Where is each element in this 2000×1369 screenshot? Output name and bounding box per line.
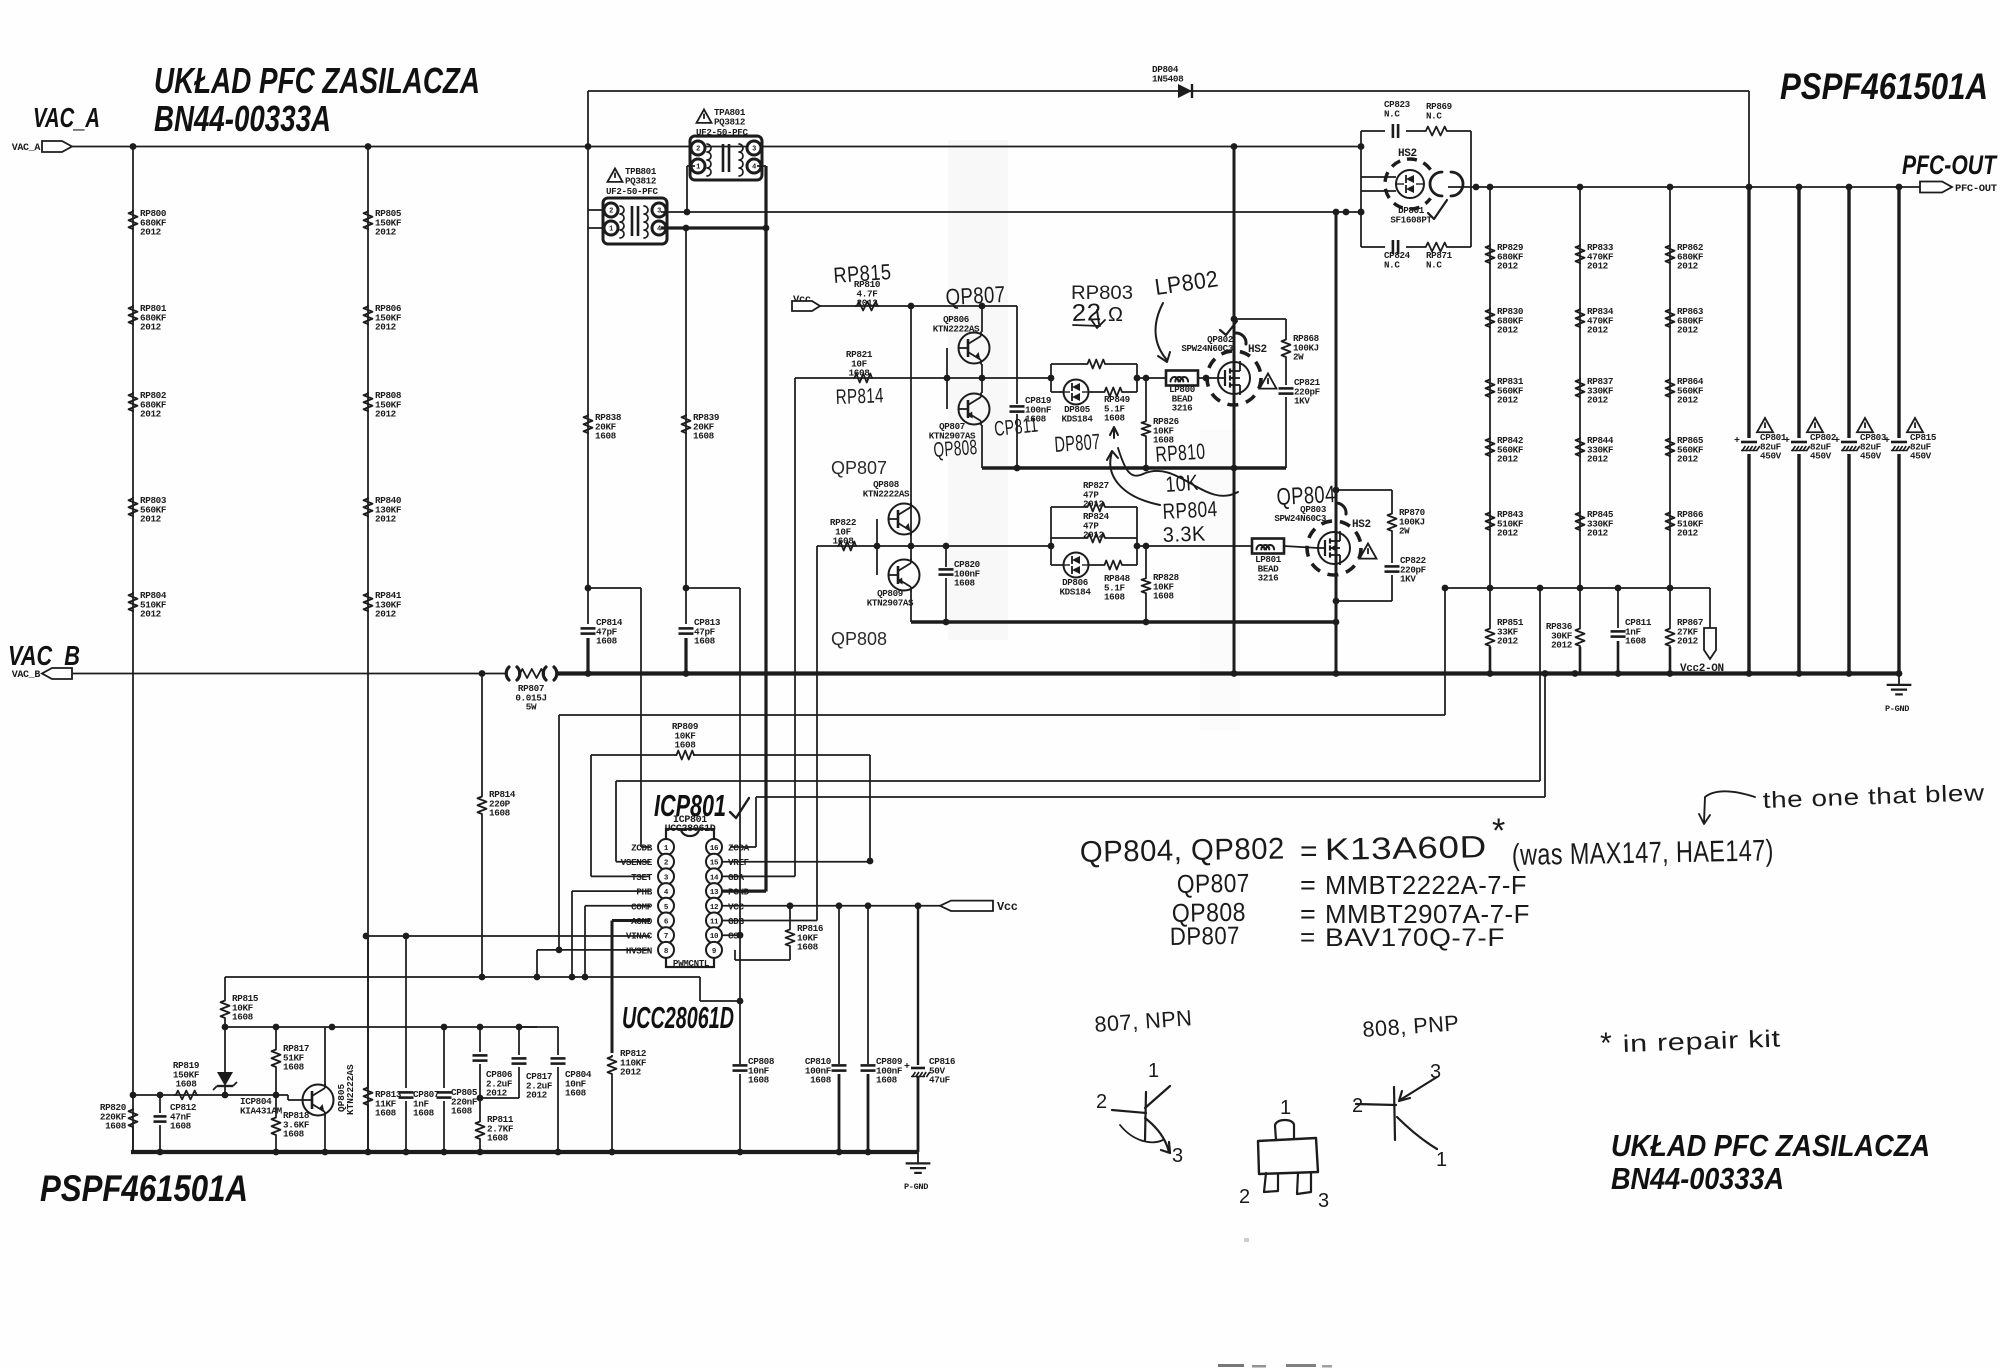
svg-text:1608: 1608 — [797, 942, 819, 953]
node VAC_A junctions — [130, 143, 137, 150]
pin 6 AGND — [658, 913, 674, 929]
svg-text:2012: 2012 — [140, 322, 162, 333]
svg-text:10: 10 — [710, 933, 719, 941]
wire output cap column CP801 — [1747, 187, 1750, 674]
handwritten DP807 arrow — [1110, 427, 1118, 438]
resistor RP863 — [1666, 308, 1675, 328]
handwritten RP803 arrow — [1090, 310, 1105, 328]
svg-text:2012: 2012 — [857, 298, 879, 309]
svg-text:2012: 2012 — [1497, 636, 1519, 647]
svg-text:Vcc: Vcc — [997, 900, 1018, 914]
mosfet QP803 — [1335, 212, 1338, 674]
resistor RP869 — [1424, 127, 1448, 136]
capacitor CP815 — [1890, 438, 1908, 454]
svg-text:1608: 1608 — [595, 431, 617, 442]
node bottom rail junctions — [157, 1149, 164, 1156]
resistor RP871 — [1424, 243, 1448, 252]
svg-text:7: 7 — [664, 933, 668, 941]
wire HS2 block frame — [1361, 130, 1385, 132]
capacitor CP807 — [405, 936, 407, 1088]
wire TPB801 left pin stubs — [588, 209, 604, 211]
svg-text:RP804: RP804 — [1162, 496, 1218, 524]
node H4 junctions — [684, 209, 691, 216]
connector PFC-OUT — [1920, 182, 1952, 193]
svg-text:1608: 1608 — [954, 578, 975, 589]
resistor RP831 — [1486, 378, 1495, 398]
capacitor CP820 — [943, 543, 950, 550]
svg-text:1: 1 — [1436, 1149, 1448, 1171]
svg-text:Ω: Ω — [1108, 304, 1123, 326]
transformer TPB801 — [603, 198, 667, 244]
resistor RP821 — [853, 374, 873, 383]
svg-text:15: 15 — [710, 860, 719, 868]
svg-text:KTN2222AS: KTN2222AS — [863, 488, 910, 499]
wire QP806/QP807 base bus — [946, 348, 948, 409]
svg-text:2012: 2012 — [1587, 395, 1609, 406]
ground P-GND right — [1898, 674, 1900, 685]
svg-text:BN44-00333A: BN44-00333A — [154, 98, 331, 139]
svg-text:KTN2222AS: KTN2222AS — [933, 323, 980, 334]
svg-text:N.C: N.C — [1426, 110, 1442, 121]
svg-text:PWMCNTL: PWMCNTL — [673, 958, 710, 969]
resistor RP805 — [364, 210, 373, 230]
svg-text:1608: 1608 — [283, 1062, 305, 1073]
svg-text:=: = — [1300, 922, 1316, 952]
wire y=1095 node line — [133, 1094, 288, 1096]
resistor RP819 — [174, 1091, 198, 1100]
wire pin1 feed x=641 — [640, 588, 642, 847]
svg-text:1608: 1608 — [1625, 636, 1647, 647]
resistor RP838 — [584, 414, 593, 434]
resistor RP803 printed — [1086, 360, 1106, 369]
wire VAC_B rail thin segment — [72, 673, 506, 675]
svg-text:3216: 3216 — [1258, 573, 1279, 584]
wire y=977 node line — [225, 976, 700, 978]
handwritten LP802 arrow — [1156, 303, 1170, 362]
svg-text:1608: 1608 — [176, 1079, 198, 1090]
wire ZCDA net y=797 — [730, 846, 756, 848]
svg-text:2012: 2012 — [140, 409, 162, 420]
wire PGND thick vertical x=766 — [764, 228, 767, 892]
node PFC-OUT junctions — [1473, 184, 1480, 191]
svg-text:PSPF461501A: PSPF461501A — [1780, 66, 1988, 107]
pin 5 COMP — [658, 898, 674, 914]
inductor LP801 bead — [1252, 539, 1284, 554]
IC ICP801 body — [666, 829, 714, 967]
pin 12 VCC — [706, 898, 722, 914]
wire PFC-OUT rail — [1455, 186, 1952, 188]
svg-text:PFC-OUT: PFC-OUT — [1955, 183, 1997, 195]
svg-text:2012: 2012 — [375, 609, 397, 620]
svg-text:2012: 2012 — [1677, 325, 1699, 336]
wire GDA drive line y=378 — [795, 377, 1051, 379]
resistor RP809 — [675, 751, 695, 760]
svg-text:1: 1 — [1280, 1097, 1292, 1119]
svg-text:1608: 1608 — [1153, 591, 1174, 602]
svg-text:4: 4 — [752, 164, 756, 172]
svg-text:4: 4 — [657, 226, 661, 234]
heatsink HS2 dashed circle upper — [1207, 351, 1261, 405]
svg-text:1608: 1608 — [413, 1108, 435, 1119]
svg-text:47uF: 47uF — [929, 1075, 951, 1086]
wire bottom rail — [131, 1150, 918, 1154]
scan speckles bottom edge — [1218, 1364, 1244, 1367]
svg-text:2012: 2012 — [1677, 528, 1699, 539]
capacitor CP813 — [685, 588, 687, 624]
svg-text:VCC: VCC — [728, 901, 744, 912]
node base/emitter junctions upper — [944, 375, 951, 382]
capacitor CP809 — [867, 906, 869, 1064]
diode DP805 — [1064, 380, 1089, 405]
wire CS pin10 to CP808 column — [722, 934, 740, 936]
wire TPA801 pin1 to H4 — [687, 165, 695, 167]
svg-text:450V: 450V — [1910, 451, 1932, 462]
pin 10 CS — [706, 927, 722, 943]
svg-text:2W: 2W — [1399, 526, 1410, 537]
node network nodes upper — [1048, 375, 1055, 382]
handwritten checkmark QP802 — [1220, 321, 1237, 335]
resistor RP826 — [1143, 375, 1150, 382]
svg-text:450V: 450V — [1760, 451, 1782, 462]
svg-text:2012: 2012 — [1677, 395, 1699, 406]
svg-text:2012: 2012 — [1497, 325, 1519, 336]
wire COMP pin5 down — [585, 905, 650, 907]
wire RP814 column — [481, 674, 483, 796]
svg-text:2012: 2012 — [526, 1090, 548, 1101]
resistor RP802 — [129, 392, 138, 412]
resistor RP827 — [1086, 503, 1106, 512]
svg-text:QP807: QP807 — [945, 281, 1006, 310]
svg-text:2: 2 — [696, 146, 700, 154]
svg-text:2: 2 — [609, 208, 613, 216]
svg-text:2012: 2012 — [1677, 636, 1699, 647]
resistor RP868 — [1234, 318, 1286, 320]
pin 14 GDA — [706, 868, 722, 884]
wire top rail — [588, 90, 1749, 92]
capacitor CP822 — [1391, 532, 1393, 563]
svg-text:KTN2222AS: KTN2222AS — [345, 1064, 356, 1115]
svg-text:450V: 450V — [1810, 451, 1832, 462]
node Vcc line junctions — [908, 303, 915, 310]
svg-text:3: 3 — [1318, 1190, 1330, 1212]
resistor RP867 — [1669, 588, 1671, 627]
wire y=588 to IC nest left — [588, 587, 641, 589]
svg-text:12: 12 — [710, 904, 719, 912]
node base/emitter junctions lower — [874, 543, 881, 550]
warning triangle QP802 — [1260, 374, 1277, 389]
svg-text:VAC_A: VAC_A — [33, 102, 100, 133]
svg-text:1608: 1608 — [565, 1088, 587, 1099]
wire left ladder column 2 x=368 — [367, 147, 369, 1153]
resistor RP866 — [1666, 511, 1675, 531]
resistor RP833 — [1576, 244, 1585, 264]
capacitor CP811 right — [1617, 588, 1619, 628]
capacitor CP814 — [587, 588, 589, 624]
wire PGND pin13 thick — [722, 889, 766, 892]
svg-text:1608: 1608 — [232, 1012, 254, 1023]
resistor RP803 — [129, 497, 138, 517]
svg-text:1608: 1608 — [105, 1121, 127, 1132]
diode DP801 dual — [1361, 176, 1396, 178]
resistor RP849 — [1103, 388, 1123, 397]
resistor RP836 — [1579, 588, 1581, 627]
svg-text:1: 1 — [609, 226, 613, 234]
pin 16 ZCDA — [706, 839, 722, 855]
wire nested net B y=781 — [1539, 588, 1541, 781]
svg-text:3216: 3216 — [1172, 403, 1193, 414]
svg-text:2012: 2012 — [1497, 528, 1519, 539]
svg-text:1608: 1608 — [283, 1129, 305, 1140]
svg-text:N.C: N.C — [1384, 259, 1400, 270]
svg-text:2012: 2012 — [1497, 395, 1519, 406]
handwritten SOT23 sketch — [1258, 1138, 1318, 1174]
svg-text:2: 2 — [1096, 1091, 1108, 1113]
capacitor CP808 — [739, 588, 741, 1064]
resistor RP804 — [129, 592, 138, 612]
svg-text:RP815: RP815 — [833, 259, 893, 288]
svg-text:2012: 2012 — [1083, 499, 1104, 510]
svg-text:1608: 1608 — [1104, 413, 1125, 424]
svg-text:PFC-OUT: PFC-OUT — [1902, 150, 1998, 180]
wire VAC_B / P-GND rail thick — [558, 671, 1899, 675]
svg-text:1608: 1608 — [596, 636, 618, 647]
connector Vcc IC — [940, 901, 993, 911]
svg-text:PQ3812: PQ3812 — [714, 116, 745, 127]
svg-text:PQ3812: PQ3812 — [625, 175, 656, 186]
svg-text:1608: 1608 — [876, 1075, 898, 1086]
resistor RP820 — [129, 1108, 138, 1128]
svg-text:QP807: QP807 — [1177, 868, 1251, 899]
connector VAC_A — [42, 141, 72, 152]
svg-text:1608: 1608 — [748, 1075, 770, 1086]
svg-text:2: 2 — [1352, 1095, 1364, 1117]
svg-text:ZCDA: ZCDA — [728, 843, 750, 854]
svg-text:KDS184: KDS184 — [1060, 586, 1092, 597]
svg-text:2012: 2012 — [1677, 261, 1699, 272]
svg-text:1608: 1608 — [489, 808, 511, 819]
svg-text:SF1608PT: SF1608PT — [1390, 214, 1432, 225]
wire GDB pin11 to x=817 — [722, 920, 817, 922]
svg-text:11: 11 — [710, 919, 719, 927]
wire RP809 net y=755 — [591, 754, 677, 756]
svg-text:1KV: 1KV — [1294, 396, 1310, 407]
resistor RP813 — [367, 936, 369, 1086]
wire right ladder column x=1580 — [1579, 187, 1581, 588]
node x=588 y=588 — [585, 585, 592, 592]
capacitor CP803 — [1840, 438, 1858, 454]
resistor RP845 — [1576, 511, 1585, 531]
wire lower cell bottom bus — [911, 620, 1337, 623]
resistor RP843 — [1486, 511, 1495, 531]
wire column x=588 with RP838 — [587, 147, 589, 589]
svg-text:VREF: VREF — [728, 857, 750, 868]
svg-text:1608: 1608 — [849, 368, 871, 379]
svg-text:*: * — [1492, 812, 1505, 850]
svg-text:N.C: N.C — [1426, 259, 1442, 270]
resistor RP818 — [275, 1095, 277, 1116]
ground P-GND bottom — [917, 1152, 919, 1163]
wire upper cell bottom bus — [982, 466, 1286, 469]
resistor RP800 — [129, 210, 138, 230]
svg-text:=: = — [1300, 835, 1318, 868]
wire y=1027 ext to CP804 — [519, 1026, 558, 1028]
svg-text:HS2: HS2 — [1248, 344, 1267, 356]
svg-text:2012: 2012 — [1587, 528, 1609, 539]
wire QP808/QP809 base bus — [876, 519, 878, 575]
svg-text:16: 16 — [710, 845, 719, 853]
svg-text:2012: 2012 — [1587, 325, 1609, 336]
svg-text:1608: 1608 — [487, 1133, 509, 1144]
svg-text:BAV170Q-7-F: BAV170Q-7-F — [1325, 924, 1505, 952]
svg-text:1608: 1608 — [693, 431, 715, 442]
svg-text:QP807: QP807 — [831, 458, 887, 478]
diode DP804 — [1178, 84, 1192, 98]
network RP827/RP824/DP806/RP848 box — [1050, 507, 1052, 565]
zener ICP804 — [217, 1072, 233, 1086]
wire right ladder column x=1490 — [1489, 187, 1491, 588]
wire left ladder column VAC_A x=133 — [132, 147, 134, 1153]
resistor RP844 — [1576, 437, 1585, 457]
wire VREF pin15 — [722, 861, 870, 863]
capacitor CP816 — [917, 906, 919, 1065]
mosfet QP802 — [1233, 147, 1236, 674]
inductor LP800 bead — [1166, 371, 1198, 386]
svg-text:1608: 1608 — [675, 740, 697, 751]
resistor RP830 — [1486, 308, 1495, 328]
svg-text:SPW24N60C3: SPW24N60C3 — [1274, 513, 1326, 524]
wire GDA pin14 to x=795 — [722, 875, 795, 877]
connector Vcc2-ON — [1709, 588, 1711, 628]
resistor RP806 — [364, 305, 373, 325]
svg-text:GDA: GDA — [728, 872, 744, 883]
svg-text:RP814: RP814 — [835, 384, 884, 409]
wire H4 phase line — [661, 211, 1361, 213]
svg-text:UCC28061D: UCC28061D — [665, 824, 716, 835]
pin 7 VINAC — [658, 927, 674, 943]
wire GDB drive line y=546 — [817, 545, 1051, 547]
svg-text:1N5408: 1N5408 — [1152, 73, 1184, 84]
svg-text:14: 14 — [710, 874, 719, 882]
resistor RP862 — [1666, 244, 1675, 264]
svg-text:VAC_B: VAC_B — [8, 640, 80, 671]
svg-text:1608: 1608 — [451, 1106, 473, 1117]
svg-text:P-GND: P-GND — [904, 1182, 928, 1192]
capacitor CP821 — [1285, 358, 1287, 385]
svg-text:2012: 2012 — [375, 409, 397, 420]
handwritten blew arrow — [1699, 791, 1755, 824]
svg-text:VSENSE: VSENSE — [621, 857, 653, 868]
svg-text:2W: 2W — [1293, 352, 1304, 363]
resistor RP870 — [1336, 489, 1392, 491]
pin 4 PHB — [658, 883, 674, 899]
svg-text:3: 3 — [752, 146, 756, 154]
resistor RP807 fusible — [506, 667, 509, 680]
node VAC_B rail junctions — [479, 670, 486, 677]
svg-text:1: 1 — [696, 164, 700, 172]
svg-text:(was MAX147, HAE147): (was MAX147, HAE147) — [1512, 834, 1775, 872]
resistor RP841 — [364, 592, 373, 612]
svg-text:PSPF461501A: PSPF461501A — [40, 1168, 248, 1209]
wire VINAC pin7 long — [366, 935, 650, 937]
svg-text:MMBT2222A-7-F: MMBT2222A-7-F — [1325, 870, 1527, 900]
svg-text:HS2: HS2 — [1352, 519, 1371, 531]
resistor RP812 — [608, 1055, 617, 1075]
svg-text:1608: 1608 — [375, 1108, 397, 1119]
svg-text:1608: 1608 — [694, 636, 716, 647]
resistor RP817 — [275, 1027, 277, 1048]
wire output cap column CP802 — [1797, 187, 1800, 674]
resistor RP808 — [364, 392, 373, 412]
svg-text:2012: 2012 — [1497, 261, 1519, 272]
transistor QP808 lower — [889, 504, 920, 535]
svg-text:2012: 2012 — [1587, 454, 1609, 465]
wire HVSEN pin8 — [537, 949, 650, 951]
wire QP806 emitter / QP807 emitter x=982 — [981, 306, 983, 332]
svg-text:1608: 1608 — [833, 536, 855, 547]
svg-text:QP808: QP808 — [933, 436, 978, 462]
pin 15 VREF — [706, 854, 722, 870]
svg-text:ZCDB: ZCDB — [631, 843, 653, 854]
pin 9 PWMCNTL — [706, 942, 722, 958]
svg-text:UKŁAD PFC ZASILACZA: UKŁAD PFC ZASILACZA — [154, 60, 480, 101]
resistor RP851 — [1489, 588, 1491, 627]
svg-text:3: 3 — [657, 208, 661, 216]
capacitor CP823 — [1392, 124, 1395, 138]
svg-text:2012: 2012 — [620, 1067, 642, 1078]
wire y=1027 node line — [225, 1026, 537, 1028]
svg-text:P-GND: P-GND — [1885, 704, 1909, 714]
wire column x=686 with RP839 — [685, 228, 687, 588]
wire nested net A y=715 — [1444, 588, 1446, 715]
handwritten checkmark ICP801 — [730, 798, 749, 818]
resistor RP815 — [224, 977, 226, 999]
svg-text:1: 1 — [1148, 1060, 1160, 1082]
handwritten squiggle RP804 arrow — [1107, 451, 1160, 505]
svg-text:DP807: DP807 — [1054, 429, 1102, 457]
wire output cap column CP803 — [1847, 187, 1850, 674]
resistor RP842 — [1486, 437, 1495, 457]
capacitor CP806 — [479, 1027, 481, 1052]
svg-text:2012: 2012 — [375, 227, 397, 238]
resistor RP828 — [1143, 543, 1150, 550]
node network nodes lower — [1048, 543, 1055, 550]
svg-text:KDS184: KDS184 — [1062, 413, 1094, 424]
wire output cap column CP815 — [1897, 187, 1900, 674]
svg-text:UF2-50-PFC: UF2-50-PFC — [606, 186, 658, 197]
svg-text:2012: 2012 — [1587, 261, 1609, 272]
node y=588 junctions — [1487, 585, 1494, 592]
diode DP806 — [1064, 553, 1089, 578]
svg-text:1608: 1608 — [810, 1075, 832, 1086]
svg-text:450V: 450V — [1860, 451, 1882, 462]
wire VAC_A rail — [72, 146, 1361, 148]
resistor RP864 — [1666, 378, 1675, 398]
pin 2 VSENSE — [658, 854, 674, 870]
coupling marks HS2 out — [1430, 172, 1442, 196]
resistor RP814 — [478, 795, 487, 815]
svg-text:UCC28061D: UCC28061D — [622, 1000, 734, 1035]
svg-text:VAC_A: VAC_A — [12, 143, 41, 154]
svg-text:Vcc2-ON: Vcc2-ON — [1680, 663, 1724, 675]
resistor RP839 — [682, 414, 691, 434]
resistor RP829 — [1486, 244, 1495, 264]
svg-text:QP808: QP808 — [831, 629, 887, 649]
wire QP808 emitter / QP809 collector x=911 — [910, 504, 912, 535]
svg-text:*: * — [1600, 1027, 1612, 1060]
resistor RP837 — [1576, 378, 1585, 398]
svg-text:2012: 2012 — [486, 1088, 508, 1099]
capacitor CP810 — [838, 906, 840, 1064]
